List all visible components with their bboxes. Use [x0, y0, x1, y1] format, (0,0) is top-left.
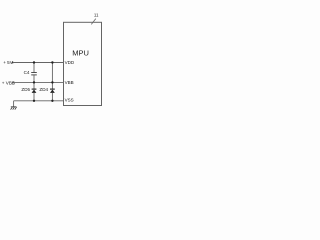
svg-text:ZD4: ZD4: [39, 87, 48, 92]
svg-text:VBB: VBB: [65, 80, 74, 85]
wire +VBB row to VBB: [13, 81, 64, 83]
svg-text:MPU: MPU: [72, 49, 89, 58]
wire ground drop: [13, 101, 15, 107]
bus slash on top edge: [91, 19, 96, 25]
capacitor C4: [31, 72, 37, 74]
zener diode ZD4: [50, 89, 55, 101]
wire C4 bottom to VBB row: [33, 75, 35, 82]
zener diode ZD5: [32, 89, 37, 101]
svg-text:ZD5: ZD5: [21, 87, 30, 92]
wire ZD4 branch: [51, 82, 53, 89]
MPU U1 box: [64, 22, 102, 105]
wire ZD5 branch: [33, 82, 35, 89]
svg-text:VSS: VSS: [65, 98, 74, 103]
wire vertical plain branch x=52.4: [51, 63, 53, 83]
terminal dot +VBB: [12, 81, 14, 83]
junction dots ground row: [33, 100, 35, 102]
wire vertical C4/ZD5 branch upper: [33, 63, 35, 73]
junction dots row2: [33, 81, 35, 83]
svg-text:VDD: VDD: [65, 60, 75, 65]
svg-text:C4: C4: [24, 70, 30, 75]
wire +5V row to VDD: [13, 62, 64, 64]
terminal dot +5V: [12, 62, 14, 64]
ground symbol: [11, 107, 17, 110]
wire ground row to VSS: [14, 100, 64, 102]
svg-text:11: 11: [94, 13, 99, 18]
junction dots row1: [33, 61, 35, 63]
